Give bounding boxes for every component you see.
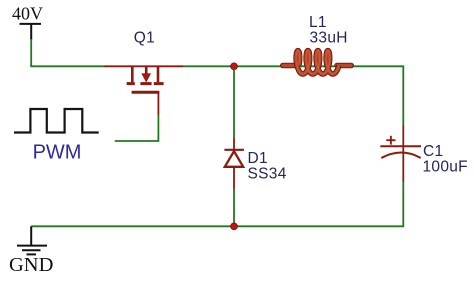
svg-text:PWM: PWM bbox=[33, 141, 82, 163]
ground symbol bbox=[17, 246, 47, 255]
inductor L1 coil highlight bbox=[296, 51, 339, 74]
wire C1 branch red bbox=[402, 125, 404, 182]
capacitor C1 bottom plate arc bbox=[381, 153, 420, 159]
wire C1 branch green bottom bbox=[402, 182, 404, 227]
wire C1 branch green top bbox=[402, 65, 404, 125]
capacitor C1 plus sign bbox=[386, 136, 395, 145]
svg-text:Q1: Q1 bbox=[134, 29, 155, 46]
transistor Q1 body arrow bbox=[142, 74, 150, 82]
wire gate red segment bbox=[157, 93, 159, 115]
wire diode bottom green bbox=[233, 189, 235, 226]
power rail symbol 40V bbox=[20, 24, 42, 40]
wire diode top red bbox=[233, 137, 235, 150]
svg-text:D1: D1 bbox=[248, 150, 268, 167]
wire GND stub black bbox=[30, 226, 32, 245]
svg-text:GND: GND bbox=[9, 254, 53, 276]
svg-text:33uH: 33uH bbox=[310, 29, 348, 46]
wire gate green segment down bbox=[157, 115, 159, 141]
transistor Q1 PMOS symbol bbox=[127, 66, 164, 92]
inductor L1 lead right bbox=[337, 63, 351, 69]
diode D1 cathode bar bbox=[224, 149, 244, 151]
wire from 40V rail down to top rail bbox=[30, 39, 32, 66]
svg-text:SS34: SS34 bbox=[248, 166, 287, 183]
svg-text:100uF: 100uF bbox=[423, 158, 468, 175]
junction dot switch node bbox=[231, 63, 238, 70]
junction dot diode anode bbox=[231, 223, 238, 230]
wire top rail left green segment bbox=[30, 65, 104, 67]
wire diode bottom red bbox=[233, 167, 235, 189]
svg-text:40V: 40V bbox=[12, 4, 43, 24]
inductor L1 lead left bbox=[283, 63, 297, 69]
wire top rail red segment through Q1 bbox=[104, 65, 183, 67]
capacitor C1 top plate bbox=[380, 145, 421, 147]
diode D1 triangle bbox=[225, 151, 243, 167]
wire gate green segment left to PWM bbox=[115, 140, 160, 142]
PWM square wave signal bbox=[14, 109, 99, 133]
inductor L1 coil bbox=[296, 51, 339, 74]
wire top rail green segment to C1 branch bbox=[183, 65, 403, 67]
svg-text:L1: L1 bbox=[309, 14, 327, 31]
wire switch node down green bbox=[233, 69, 235, 137]
wire bottom rail bbox=[31, 225, 403, 227]
